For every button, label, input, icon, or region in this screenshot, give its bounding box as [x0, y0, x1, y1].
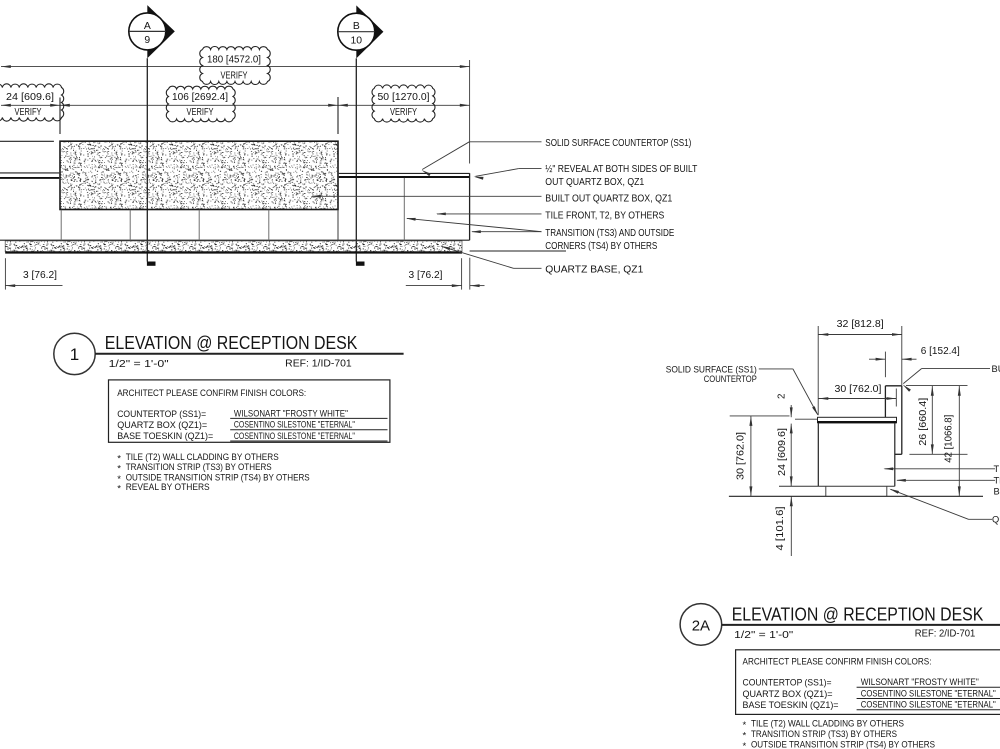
svg-text:½" REVEAL AT BOTH SIDES OF BUI: ½" REVEAL AT BOTH SIDES OF BUILT — [545, 164, 697, 175]
svg-text:3 [76.2]: 3 [76.2] — [23, 270, 57, 281]
svg-text:QUARTZ BASE, QZ1: QUARTZ BASE, QZ1 — [992, 515, 1000, 525]
svg-text:TRANSITION (TS3) AND: TRANSITION (TS3) AND — [994, 476, 1000, 486]
revision cloud 180 [4572.0] VERIFY — [200, 46, 270, 84]
desk right edge — [469, 173, 471, 240]
svg-text:WILSONART "FROSTY WHITE": WILSONART "FROSTY WHITE" — [234, 408, 348, 419]
revision cloud 106 [2692.4] VERIFY — [166, 86, 235, 122]
svg-text:VERIFY: VERIFY — [221, 70, 248, 81]
2A leader built out quartz box (clipped label) — [903, 364, 1000, 392]
2A dimension 30 [762.0] horizontal — [819, 384, 897, 406]
extension tick at x=60 — [59, 98, 61, 135]
2A floor line — [729, 495, 983, 497]
svg-text:42 [1066.8]: 42 [1066.8] — [943, 414, 954, 462]
svg-text:COSENTINO SILESTONE "ETERNAL": COSENTINO SILESTONE "ETERNAL" — [234, 431, 355, 442]
quartz base QZ1 (stippled strip) — [5, 241, 462, 253]
svg-text:BASE TOESKIN (QZ1)=: BASE TOESKIN (QZ1)= — [743, 700, 839, 711]
svg-text:COSENTINO SILESTONE "ETERNAL": COSENTINO SILESTONE "ETERNAL" — [861, 688, 996, 699]
drawing title 2A: circle — [680, 604, 722, 646]
leader + label: quartz base QZ1 — [441, 246, 644, 276]
svg-text:A: A — [144, 21, 151, 32]
extension line right edge — [469, 60, 471, 164]
svg-text:REF: 2/ID-701: REF: 2/ID-701 — [915, 629, 976, 640]
notes bullets 2A — [743, 718, 936, 749]
svg-text:SOLID SURFACE COUNTERTOP (SS1): SOLID SURFACE COUNTERTOP (SS1) — [545, 138, 691, 149]
svg-text:*: * — [743, 741, 747, 749]
svg-text:COSENTINO SILESTONE "ETERNAL": COSENTINO SILESTONE "ETERNAL" — [861, 700, 996, 711]
svg-text:TILE FRONT, T2, BY OTHERS: TILE FRONT, T2, BY OTHERS — [994, 464, 1000, 474]
svg-text:VERIFY: VERIFY — [15, 107, 42, 118]
2A leader + label solid surface SS1 countertop — [666, 364, 818, 415]
2A leader quartz base (clipped label) — [889, 489, 1000, 525]
svg-text:BASE TOESKIN (QZ1)=: BASE TOESKIN (QZ1)= — [117, 431, 213, 442]
svg-text:50 [1270.0]: 50 [1270.0] — [378, 92, 430, 103]
leader + label: tile front T2 — [436, 210, 665, 221]
section marker B/10 — [338, 5, 384, 265]
2A countertop slab — [818, 417, 897, 422]
svg-text:COUNTERTOP (SS1)=: COUNTERTOP (SS1)= — [743, 678, 832, 689]
dimension 3 [76.2] left — [5, 258, 62, 289]
svg-text:*: * — [117, 483, 121, 494]
svg-text:BY OTHERS: BY OTHERS — [994, 487, 1000, 497]
2A dimension 42 [1066.8] — [943, 386, 960, 496]
svg-text:32 [812.8]: 32 [812.8] — [837, 319, 884, 330]
section marker A/9 — [129, 5, 175, 266]
dimension line 24/106/50 — [1, 104, 470, 107]
svg-text:VERIFY: VERIFY — [187, 107, 214, 118]
svg-text:OUTSIDE TRANSITION STRIP (TS4): OUTSIDE TRANSITION STRIP (TS4) BY OTHERS — [751, 740, 935, 749]
svg-text:30 [762.0]: 30 [762.0] — [835, 384, 882, 395]
extension tick at x=338 — [337, 97, 339, 134]
countertop top line left section — [0, 140, 54, 142]
architect note box 2A — [736, 650, 1000, 715]
svg-text:TILE FRONT, T2, BY OTHERS: TILE FRONT, T2, BY OTHERS — [545, 210, 664, 221]
drawing title 1: ELEVATION @ RECEPTION DESK — [95, 332, 403, 370]
built out quartz box QZ1 (hatched) — [60, 141, 338, 209]
leader + label: built out quartz box QZ1 — [311, 194, 672, 205]
svg-text:24 [609.6]: 24 [609.6] — [6, 92, 54, 103]
leader + label: transition TS3 and outside corners TS4 — [406, 218, 675, 252]
svg-text:QUARTZ BASE, QZ1: QUARTZ BASE, QZ1 — [545, 265, 643, 276]
svg-text:10: 10 — [351, 36, 363, 47]
architect note text 1 — [117, 388, 387, 442]
svg-text:*: * — [743, 720, 747, 731]
svg-text:B: B — [353, 21, 360, 32]
svg-text:COUNTERTOP (SS1)=: COUNTERTOP (SS1)= — [117, 409, 206, 420]
2A leader tile front (clipped label) — [883, 464, 1000, 474]
svg-text:QUARTZ BOX (QZ1)=: QUARTZ BOX (QZ1)= — [117, 420, 207, 431]
svg-text:9: 9 — [144, 35, 150, 46]
2A dimension 4 [101.6] — [775, 496, 793, 556]
svg-text:REVEAL BY OTHERS: REVEAL BY OTHERS — [126, 482, 210, 493]
2A built out quartz box — [885, 386, 901, 455]
drawing title 2A: ELEVATION @ RECEPTION DESK — [722, 603, 1000, 640]
leader + label: solid surface countertop SS1 — [422, 138, 692, 176]
svg-text:TRANSITION STRIP (TS3) BY OTHE: TRANSITION STRIP (TS3) BY OTHERS — [751, 729, 897, 740]
dimension line 180 [4572.0] overall — [1, 65, 470, 68]
svg-text:VERIFY: VERIFY — [390, 107, 417, 118]
svg-text:QUARTZ BOX (QZ1)=: QUARTZ BOX (QZ1)= — [743, 689, 833, 700]
svg-text:COSENTINO SILESTONE "ETERNAL": COSENTINO SILESTONE "ETERNAL" — [234, 420, 355, 431]
floor line right of desk — [470, 250, 566, 252]
svg-text:2A: 2A — [692, 617, 710, 634]
svg-text:3 [76.2]: 3 [76.2] — [409, 270, 443, 281]
svg-text:180 [4572.0]: 180 [4572.0] — [207, 55, 261, 66]
architect note box 1 — [109, 380, 390, 442]
svg-text:TRANSITION (TS3) AND OUTSIDE: TRANSITION (TS3) AND OUTSIDE — [545, 228, 674, 239]
svg-text:30 [762.0]: 30 [762.0] — [736, 432, 747, 480]
svg-text:6 [152.4]: 6 [152.4] — [921, 346, 960, 357]
2A dimension 32 [812.8] — [818, 319, 902, 415]
reveal lines left section — [0, 173, 59, 178]
2A dimension 6 [152.4] — [869, 346, 960, 377]
2A toe kick — [826, 486, 887, 496]
architect note text 2A — [743, 656, 1000, 711]
svg-text:COUNTERTOP: COUNTERTOP — [704, 374, 757, 384]
2A dimension 24 [609.6] — [777, 419, 817, 486]
2A desk body — [779, 424, 895, 487]
svg-text:ELEVATION @ RECEPTION DESK: ELEVATION @ RECEPTION DESK — [105, 332, 358, 353]
drawing title 1: circle — [54, 333, 95, 374]
svg-text:ARCHITECT PLEASE CONFIRM FINIS: ARCHITECT PLEASE CONFIRM FINISH COLORS: — [117, 388, 306, 399]
tile front bottom line — [0, 239, 470, 241]
svg-text:BUILT OUT QUARTZ BOX, QZ1: BUILT OUT QUARTZ BOX, QZ1 — [992, 364, 1000, 374]
svg-text:CORNERS (TS4) BY OTHERS: CORNERS (TS4) BY OTHERS — [545, 241, 657, 252]
leader + label: half inch reveal — [474, 164, 698, 188]
svg-text:1: 1 — [70, 345, 79, 364]
2A dimension 2 (countertop thickness) — [777, 394, 793, 418]
svg-text:BUILT OUT QUARTZ BOX, QZ1: BUILT OUT QUARTZ BOX, QZ1 — [545, 194, 672, 205]
2A leader transition (clipped label) — [896, 476, 1000, 497]
revision cloud 50 [1270.0] VERIFY — [372, 85, 435, 122]
notes bullets 1 — [117, 452, 310, 495]
svg-text:26 [660.4]: 26 [660.4] — [918, 397, 929, 445]
svg-text:OUT QUARTZ BOX, QZ1: OUT QUARTZ BOX, QZ1 — [545, 177, 644, 188]
svg-text:24 [609.6]: 24 [609.6] — [777, 428, 788, 476]
countertop SS1 right section — [339, 173, 470, 177]
svg-text:ARCHITECT PLEASE CONFIRM FINIS: ARCHITECT PLEASE CONFIRM FINISH COLORS: — [743, 656, 932, 667]
svg-text:1/2" = 1'-0": 1/2" = 1'-0" — [109, 359, 170, 370]
svg-text:4 [101.6]: 4 [101.6] — [775, 506, 786, 550]
revision cloud 24 [609.6] VERIFY — [0, 84, 64, 121]
svg-text:2: 2 — [777, 394, 788, 399]
svg-text:REF: 1/ID-701: REF: 1/ID-701 — [285, 359, 352, 370]
svg-text:106 [2692.4]: 106 [2692.4] — [172, 92, 228, 103]
svg-text:ELEVATION @ RECEPTION DESK: ELEVATION @ RECEPTION DESK — [732, 603, 984, 624]
svg-text:*: * — [743, 731, 747, 742]
2A dimension 30 [762.0] vertical — [730, 416, 790, 496]
svg-text:1/2" = 1'-0": 1/2" = 1'-0" — [734, 630, 794, 641]
dimension 3 [76.2] right — [406, 258, 485, 290]
svg-text:WILSONART "FROSTY WHITE": WILSONART "FROSTY WHITE" — [861, 677, 979, 688]
tile joints T2 — [61, 178, 404, 240]
svg-text:TILE (T2) WALL CLADDING BY OTH: TILE (T2) WALL CLADDING BY OTHERS — [751, 718, 904, 729]
2A dimension 26 [660.4] — [906, 385, 968, 454]
